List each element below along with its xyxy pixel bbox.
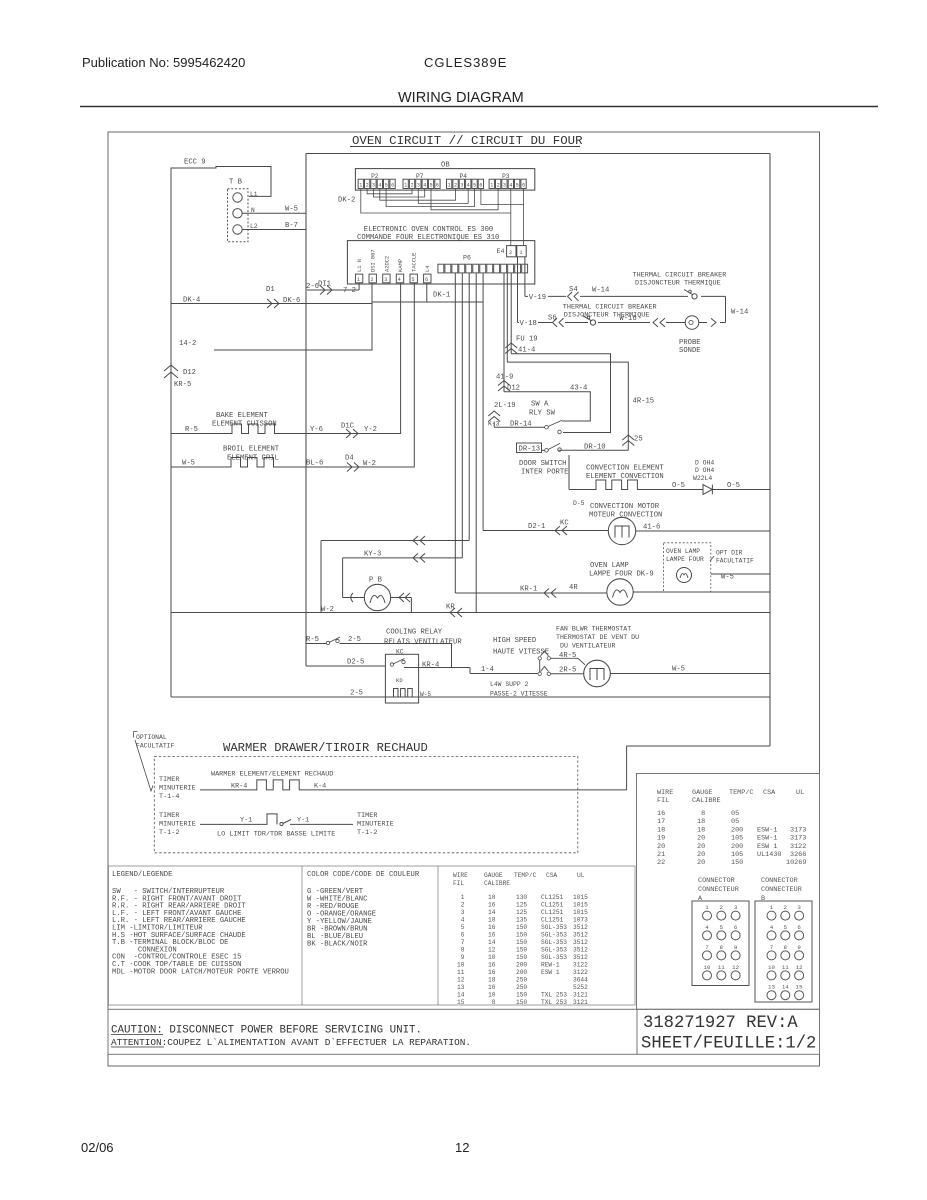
svg-text:135: 135 bbox=[516, 917, 527, 924]
svg-text:11: 11 bbox=[718, 964, 725, 971]
svg-text:TIMER: TIMER bbox=[159, 776, 179, 784]
svg-text:V-18: V-18 bbox=[520, 320, 537, 328]
svg-text:WIRE: WIRE bbox=[657, 789, 673, 797]
svg-text:OVEN LAMP: OVEN LAMP bbox=[666, 548, 700, 555]
svg-text:D2-1: D2-1 bbox=[528, 523, 545, 531]
svg-text:2: 2 bbox=[457, 902, 465, 909]
connector B pins bbox=[767, 911, 776, 920]
svg-text:BK -BLACK/NOIR: BK -BLACK/NOIR bbox=[307, 941, 368, 949]
svg-text:2-6: 2-6 bbox=[306, 283, 319, 291]
EOC pin1 stub bbox=[358, 283, 360, 290]
svg-text:130: 130 bbox=[516, 894, 527, 901]
svg-text:4R-15: 4R-15 bbox=[633, 398, 655, 406]
optional lamp E2 bbox=[677, 568, 692, 583]
svg-text:OPT DIR: OPT DIR bbox=[716, 550, 743, 557]
svg-text:L2: L2 bbox=[250, 223, 258, 230]
svg-text:3512: 3512 bbox=[573, 947, 588, 954]
svg-text:W-5: W-5 bbox=[672, 666, 685, 674]
svg-text:SW A: SW A bbox=[531, 401, 549, 409]
wire T1 bbox=[321, 541, 469, 613]
svg-text:D2-5: D2-5 bbox=[347, 659, 364, 667]
svg-text:LEGEND/LEGENDE: LEGEND/LEGENDE bbox=[112, 871, 172, 879]
svg-text:150: 150 bbox=[516, 939, 527, 946]
svg-text:14: 14 bbox=[488, 939, 496, 946]
svg-text:3: 3 bbox=[503, 183, 506, 189]
svg-text:15: 15 bbox=[796, 984, 803, 991]
svg-text:L1 N: L1 N bbox=[357, 259, 363, 272]
svg-text:10: 10 bbox=[457, 962, 465, 969]
svg-text:R-5: R-5 bbox=[306, 636, 319, 644]
svg-text:12: 12 bbox=[488, 947, 496, 954]
svg-text:10: 10 bbox=[488, 954, 496, 961]
svg-text:TXL 253: TXL 253 bbox=[541, 992, 567, 999]
svg-text:4R-5: 4R-5 bbox=[559, 652, 576, 660]
svg-text:1: 1 bbox=[448, 183, 451, 189]
svg-text:12: 12 bbox=[455, 1140, 469, 1155]
svg-text:WIRING DIAGRAM: WIRING DIAGRAM bbox=[398, 90, 524, 106]
svg-text:GAUGE: GAUGE bbox=[692, 789, 712, 797]
svg-text:5: 5 bbox=[457, 924, 465, 931]
svg-text:2: 2 bbox=[371, 277, 374, 283]
EOC lower pin boxes bbox=[355, 274, 362, 283]
oven circuit box right edge bbox=[769, 154, 771, 747]
svg-text:D1C: D1C bbox=[341, 423, 355, 431]
svg-text:3: 3 bbox=[417, 183, 420, 189]
svg-text:SGL-353: SGL-353 bbox=[541, 954, 567, 961]
wire N to oven box bbox=[242, 212, 306, 214]
diode D1 bbox=[703, 485, 770, 495]
svg-text:5: 5 bbox=[473, 183, 476, 189]
svg-text:4: 4 bbox=[398, 277, 401, 283]
svg-text:KR-4: KR-4 bbox=[231, 783, 247, 791]
terminal N bbox=[233, 209, 242, 218]
svg-text:D12: D12 bbox=[507, 385, 520, 393]
svg-text:16: 16 bbox=[488, 984, 496, 991]
svg-text:125: 125 bbox=[516, 902, 527, 909]
svg-text:25: 25 bbox=[634, 436, 643, 444]
svg-text:150: 150 bbox=[516, 999, 527, 1006]
svg-text:BAKE ELEMENT: BAKE ELEMENT bbox=[216, 412, 268, 420]
ECC hook wire bbox=[171, 167, 271, 305]
svg-text:14: 14 bbox=[488, 909, 496, 916]
svg-text:02/06: 02/06 bbox=[81, 1140, 114, 1155]
svg-text:3512: 3512 bbox=[573, 954, 588, 961]
svg-text:CONNECTOR: CONNECTOR bbox=[761, 877, 798, 885]
svg-text:1015: 1015 bbox=[573, 909, 588, 916]
svg-text:2-5: 2-5 bbox=[350, 690, 363, 698]
svg-text:DK-1: DK-1 bbox=[433, 292, 450, 300]
svg-text:Y-6: Y-6 bbox=[310, 426, 323, 434]
svg-text:TEMP/C: TEMP/C bbox=[729, 789, 753, 797]
svg-text:4: 4 bbox=[467, 183, 470, 189]
terminal L1 bbox=[233, 193, 242, 202]
bake element bbox=[171, 283, 401, 434]
svg-text:COLOR CODE/CODE DE COULEUR: COLOR CODE/CODE DE COULEUR bbox=[307, 871, 420, 879]
svg-text:18: 18 bbox=[488, 977, 496, 984]
svg-text:8: 8 bbox=[488, 999, 496, 1006]
svg-text:T B: T B bbox=[229, 179, 243, 187]
broil element bbox=[171, 283, 414, 467]
svg-text:9: 9 bbox=[734, 944, 738, 951]
svg-text:18: 18 bbox=[488, 917, 496, 924]
svg-text:3266: 3266 bbox=[790, 851, 806, 859]
svg-text:UL: UL bbox=[577, 872, 585, 879]
svg-text:W-5: W-5 bbox=[721, 574, 734, 582]
svg-text:125: 125 bbox=[516, 909, 527, 916]
svg-text:10: 10 bbox=[488, 992, 496, 999]
svg-text:CALIBRE: CALIBRE bbox=[692, 797, 721, 805]
svg-text:W-2: W-2 bbox=[363, 460, 376, 468]
svg-text:3512: 3512 bbox=[573, 924, 588, 931]
svg-text:12: 12 bbox=[732, 964, 739, 971]
svg-text:6: 6 bbox=[734, 924, 738, 931]
svg-text:P B: P B bbox=[369, 577, 383, 585]
probe sensor bbox=[685, 316, 699, 330]
oven lamp E1 bbox=[607, 579, 633, 605]
svg-text:2: 2 bbox=[497, 183, 500, 189]
svg-text:1: 1 bbox=[705, 904, 709, 911]
connector OB body bbox=[355, 169, 534, 191]
svg-text:K-4: K-4 bbox=[314, 783, 326, 791]
svg-text:D4: D4 bbox=[345, 455, 354, 463]
optional oven lamp box bbox=[664, 543, 711, 592]
svg-text:150: 150 bbox=[731, 859, 743, 867]
svg-text:R-5: R-5 bbox=[185, 426, 198, 434]
wire KR bus bbox=[171, 612, 770, 614]
svg-text:1: 1 bbox=[519, 250, 522, 256]
svg-text:6: 6 bbox=[425, 277, 428, 283]
wire D2-5 bbox=[306, 665, 385, 667]
svg-text:DU VENTILATEUR: DU VENTILATEUR bbox=[560, 643, 615, 650]
wire L2 to oven box bbox=[242, 229, 306, 231]
svg-text:3: 3 bbox=[384, 277, 387, 283]
svg-text:4R: 4R bbox=[569, 584, 578, 592]
svg-text:1: 1 bbox=[490, 183, 493, 189]
svg-text:41-9: 41-9 bbox=[496, 374, 513, 382]
svg-text:1-4: 1-4 bbox=[481, 666, 494, 674]
svg-text:43-4: 43-4 bbox=[570, 385, 587, 393]
svg-text:8: 8 bbox=[720, 944, 724, 951]
svg-text:20: 20 bbox=[657, 843, 665, 851]
svg-text:CONNECTEUR: CONNECTEUR bbox=[698, 886, 739, 894]
bus chevrons D12 bbox=[164, 365, 178, 378]
svg-text:MDL -MOTOR DOOR LATCH/MOTEUR P: MDL -MOTOR DOOR LATCH/MOTEUR PORTE VERRO… bbox=[112, 968, 289, 976]
svg-text:S6: S6 bbox=[548, 315, 557, 323]
svg-text:150: 150 bbox=[516, 932, 527, 939]
svg-text:8: 8 bbox=[697, 810, 705, 818]
svg-text:T-1-4: T-1-4 bbox=[159, 793, 179, 801]
svg-text:20: 20 bbox=[697, 843, 705, 851]
connector B box bbox=[755, 901, 812, 1002]
svg-text:RELAIS VENTILATEUR: RELAIS VENTILATEUR bbox=[384, 639, 462, 647]
svg-text:INTER PORTE: INTER PORTE bbox=[521, 469, 568, 477]
svg-text:15: 15 bbox=[457, 999, 465, 1006]
svg-text:22: 22 bbox=[657, 859, 665, 867]
svg-text:ATTENTION:COUPEZ L`ALIMENTATIO: ATTENTION:COUPEZ L`ALIMENTATION AVANT D`… bbox=[111, 1037, 471, 1048]
svg-text:MINUTERIE: MINUTERIE bbox=[357, 821, 394, 829]
svg-text:V-19: V-19 bbox=[529, 294, 546, 302]
svg-text:OVEN CIRCUIT // CIRCUIT DU FOU: OVEN CIRCUIT // CIRCUIT DU FOUR bbox=[352, 134, 583, 148]
svg-text:TIMER: TIMER bbox=[357, 812, 377, 820]
svg-text:KC: KC bbox=[560, 520, 569, 528]
svg-text:14: 14 bbox=[782, 984, 789, 991]
svg-text:05: 05 bbox=[731, 810, 739, 818]
svg-text:2-5: 2-5 bbox=[348, 636, 361, 644]
svg-text:MINUTERIE: MINUTERIE bbox=[159, 821, 196, 829]
svg-text:4: 4 bbox=[378, 183, 381, 189]
oven circuit box left edge bbox=[305, 154, 307, 667]
svg-text:3122: 3122 bbox=[573, 969, 588, 976]
svg-text:3121: 3121 bbox=[573, 999, 588, 1006]
right panel box bbox=[637, 774, 820, 1010]
EOC body U1 bbox=[347, 241, 534, 284]
svg-text:ESW 1: ESW 1 bbox=[541, 969, 560, 976]
svg-text:ESW-1: ESW-1 bbox=[757, 826, 777, 834]
svg-text:CONNECTOR: CONNECTOR bbox=[698, 877, 735, 885]
svg-text:BL-6: BL-6 bbox=[306, 460, 323, 468]
svg-text:13: 13 bbox=[768, 984, 775, 991]
svg-text:CSA: CSA bbox=[546, 872, 557, 879]
wire DK-4 bbox=[171, 303, 372, 305]
svg-text:6: 6 bbox=[479, 183, 482, 189]
svg-text:12: 12 bbox=[457, 977, 465, 984]
svg-text:5: 5 bbox=[516, 183, 519, 189]
legend box bbox=[109, 866, 636, 1005]
svg-text:OVEN LAMP: OVEN LAMP bbox=[590, 562, 629, 570]
svg-text:1015: 1015 bbox=[573, 894, 588, 901]
relay coil bbox=[394, 689, 413, 698]
svg-text:FACULTATIF: FACULTATIF bbox=[136, 743, 175, 750]
svg-text:WARMER DRAWER/TIROIR RECHAUD: WARMER DRAWER/TIROIR RECHAUD bbox=[223, 741, 428, 755]
svg-text:18: 18 bbox=[697, 818, 705, 826]
svg-text:18: 18 bbox=[697, 826, 705, 834]
svg-text:1: 1 bbox=[359, 183, 362, 189]
svg-text:18: 18 bbox=[657, 826, 665, 834]
svg-text:A: A bbox=[698, 895, 703, 903]
svg-text:CGLES389E: CGLES389E bbox=[424, 55, 507, 70]
svg-text:CONVECTION ELEMENT: CONVECTION ELEMENT bbox=[586, 465, 664, 473]
svg-text:LAMPE FOUR: LAMPE FOUR bbox=[666, 556, 704, 563]
svg-text:WARMER ELEMENT/ELEMENT RECHAUD: WARMER ELEMENT/ELEMENT RECHAUD bbox=[211, 771, 333, 779]
svg-text:FIL: FIL bbox=[453, 880, 464, 887]
warmer element wire bbox=[200, 780, 627, 790]
svg-text:SGL-353: SGL-353 bbox=[541, 932, 567, 939]
svg-text:200: 200 bbox=[731, 826, 743, 834]
svg-text:2: 2 bbox=[411, 183, 414, 189]
svg-text:18: 18 bbox=[488, 894, 496, 901]
svg-text:TXL 253: TXL 253 bbox=[541, 999, 567, 1006]
svg-text:CONVECTION MOTOR: CONVECTION MOTOR bbox=[590, 503, 660, 511]
svg-text:W-5: W-5 bbox=[182, 460, 195, 468]
svg-text:21: 21 bbox=[657, 851, 665, 859]
svg-text:FU 19: FU 19 bbox=[516, 336, 538, 344]
svg-text:THERMOSTAT DE VENT DU: THERMOSTAT DE VENT DU bbox=[556, 634, 639, 641]
svg-text:105: 105 bbox=[731, 835, 743, 843]
svg-text:4: 4 bbox=[457, 917, 465, 924]
svg-text:41-6: 41-6 bbox=[643, 524, 660, 532]
svg-text:ELECTRONIC OVEN CONTROL ES 300: ELECTRONIC OVEN CONTROL ES 300 bbox=[364, 226, 493, 234]
svg-text:DR-13: DR-13 bbox=[519, 446, 541, 454]
svg-text:4: 4 bbox=[705, 924, 709, 931]
svg-text:3121: 3121 bbox=[573, 992, 588, 999]
svg-text:D OH4: D OH4 bbox=[695, 460, 714, 467]
svg-text:FIL: FIL bbox=[657, 797, 669, 805]
svg-text:REW-1: REW-1 bbox=[541, 962, 560, 969]
svg-text:KAMP: KAMP bbox=[398, 259, 404, 272]
svg-text:FAN BLWR THERMOSTAT: FAN BLWR THERMOSTAT bbox=[556, 626, 631, 633]
svg-text:CALIBRE: CALIBRE bbox=[484, 880, 510, 887]
svg-text:16: 16 bbox=[488, 902, 496, 909]
svg-text:200: 200 bbox=[731, 843, 743, 851]
wire V-19 bbox=[525, 257, 726, 323]
svg-text:T-1-2: T-1-2 bbox=[159, 829, 179, 837]
oven circuit box bottom edge bbox=[627, 745, 770, 747]
svg-text:5: 5 bbox=[412, 277, 415, 283]
svg-text:12: 12 bbox=[796, 964, 803, 971]
svg-text:1015: 1015 bbox=[573, 902, 588, 909]
svg-text:W-14: W-14 bbox=[731, 309, 748, 317]
svg-text:2: 2 bbox=[784, 904, 788, 911]
svg-text:CL1251: CL1251 bbox=[541, 909, 564, 916]
svg-text:3122: 3122 bbox=[573, 962, 588, 969]
svg-text:7: 7 bbox=[457, 939, 465, 946]
svg-text:2L-19: 2L-19 bbox=[494, 402, 516, 410]
svg-text:D12: D12 bbox=[183, 369, 196, 377]
svg-text:UL: UL bbox=[796, 789, 804, 797]
svg-text:CL1251: CL1251 bbox=[541, 902, 564, 909]
svg-text:ECC 9: ECC 9 bbox=[184, 159, 206, 167]
svg-text:SHEET/FEUILLE:1/2: SHEET/FEUILLE:1/2 bbox=[641, 1035, 816, 1054]
svg-text:Publication No: 5995462420: Publication No: 5995462420 bbox=[82, 55, 245, 70]
svg-text:14-2: 14-2 bbox=[179, 340, 196, 348]
svg-text:KD: KD bbox=[396, 677, 403, 684]
svg-text:CL1251: CL1251 bbox=[541, 894, 564, 901]
svg-text:SGL-353: SGL-353 bbox=[541, 924, 567, 931]
svg-text:LO LIMIT TDR/TDR BASSE LIMITE: LO LIMIT TDR/TDR BASSE LIMITE bbox=[217, 831, 335, 839]
lo limit tdr wire bbox=[200, 814, 277, 825]
svg-text:3: 3 bbox=[457, 909, 465, 916]
svg-text:DISJONCTEUR THERMIQUE: DISJONCTEUR THERMIQUE bbox=[635, 280, 721, 288]
svg-text:L4: L4 bbox=[425, 266, 431, 272]
svg-text:20: 20 bbox=[697, 835, 705, 843]
svg-text:6: 6 bbox=[457, 932, 465, 939]
svg-text:6: 6 bbox=[436, 183, 439, 189]
svg-text:KR-4: KR-4 bbox=[422, 662, 439, 670]
svg-text:1: 1 bbox=[770, 904, 774, 911]
svg-text:O-5: O-5 bbox=[727, 482, 740, 490]
svg-text:WIRE: WIRE bbox=[453, 872, 468, 879]
svg-text:3173: 3173 bbox=[790, 835, 806, 843]
OB interconnect wires bbox=[361, 189, 524, 246]
svg-text:BROIL ELEMENT: BROIL ELEMENT bbox=[223, 446, 280, 454]
svg-text:3: 3 bbox=[734, 904, 738, 911]
junction arrows DK-6 bbox=[267, 299, 279, 308]
svg-text:3512: 3512 bbox=[573, 932, 588, 939]
svg-text:5: 5 bbox=[430, 183, 433, 189]
svg-text:A2DC2: A2DC2 bbox=[384, 256, 390, 272]
svg-text:CONNECTEUR: CONNECTEUR bbox=[761, 886, 802, 894]
svg-text:5: 5 bbox=[385, 183, 388, 189]
wire V-18 bbox=[518, 257, 726, 323]
svg-text:THERMAL CIRCUIT BREAKER: THERMAL CIRCUIT BREAKER bbox=[633, 272, 727, 280]
svg-text:T-1-2: T-1-2 bbox=[357, 829, 377, 837]
svg-text:318271927 REV:A: 318271927 REV:A bbox=[643, 1014, 798, 1033]
svg-text:2: 2 bbox=[454, 183, 457, 189]
fan motor M2 bbox=[584, 660, 611, 687]
svg-text:TEMP/C: TEMP/C bbox=[514, 872, 537, 879]
svg-text:B-7: B-7 bbox=[285, 222, 298, 230]
svg-text:W22L4: W22L4 bbox=[693, 475, 712, 482]
svg-text:10269: 10269 bbox=[786, 859, 806, 867]
svg-text:LAMPE FOUR DK-9: LAMPE FOUR DK-9 bbox=[589, 571, 654, 579]
svg-text:16: 16 bbox=[488, 932, 496, 939]
svg-text:200: 200 bbox=[516, 962, 527, 969]
svg-text:11: 11 bbox=[782, 964, 789, 971]
svg-text:7: 7 bbox=[770, 944, 774, 951]
wire D2-1 bbox=[483, 530, 608, 532]
svg-text:1073: 1073 bbox=[573, 917, 588, 924]
svg-text:16: 16 bbox=[657, 810, 665, 818]
svg-text:150: 150 bbox=[516, 992, 527, 999]
svg-text:14: 14 bbox=[457, 992, 465, 999]
svg-text:TIMER: TIMER bbox=[159, 812, 179, 820]
svg-text:COOLING RELAY: COOLING RELAY bbox=[386, 629, 443, 637]
optional bracket arrow bbox=[134, 732, 154, 792]
svg-text:DK-6: DK-6 bbox=[283, 297, 300, 305]
svg-text:16: 16 bbox=[488, 924, 496, 931]
svg-text:KR-5: KR-5 bbox=[174, 381, 191, 389]
svg-text:THERMAL CIRCUIT BREAKER: THERMAL CIRCUIT BREAKER bbox=[563, 303, 657, 311]
svg-text:UL1430: UL1430 bbox=[757, 851, 781, 859]
convection element R bbox=[569, 480, 703, 490]
svg-text:3: 3 bbox=[460, 183, 463, 189]
svg-text:7: 7 bbox=[705, 944, 709, 951]
svg-text:3122: 3122 bbox=[790, 843, 806, 851]
svg-text:O-5: O-5 bbox=[672, 482, 685, 490]
svg-text:E4: E4 bbox=[497, 248, 505, 255]
svg-text:150: 150 bbox=[516, 947, 527, 954]
svg-text:6: 6 bbox=[391, 183, 394, 189]
svg-text:3512: 3512 bbox=[573, 939, 588, 946]
svg-text:D-5: D-5 bbox=[573, 500, 585, 507]
svg-text:1: 1 bbox=[404, 183, 407, 189]
svg-text:ESW 1: ESW 1 bbox=[757, 843, 777, 851]
svg-text:3: 3 bbox=[797, 904, 801, 911]
caution box bbox=[108, 1009, 637, 1054]
svg-text:19: 19 bbox=[657, 835, 665, 843]
svg-text:MINUTERIE: MINUTERIE bbox=[159, 785, 196, 793]
svg-text:OPTIONAL: OPTIONAL bbox=[136, 734, 167, 741]
connector A box bbox=[692, 901, 749, 986]
svg-text:SONDE: SONDE bbox=[679, 347, 701, 355]
warmer riser to oven box bbox=[626, 746, 628, 790]
svg-text:W-5: W-5 bbox=[285, 206, 298, 214]
svg-text:Y-2: Y-2 bbox=[364, 426, 377, 434]
wire KR-1 bbox=[455, 592, 606, 594]
svg-text:5: 5 bbox=[784, 924, 788, 931]
svg-text:L1: L1 bbox=[250, 191, 258, 198]
svg-text:250: 250 bbox=[516, 984, 527, 991]
oven circuit box top edge bbox=[306, 153, 770, 155]
svg-text:4: 4 bbox=[509, 183, 512, 189]
svg-text:HIGH SPEED: HIGH SPEED bbox=[493, 637, 536, 645]
bottom bus bbox=[171, 696, 770, 698]
header rule bbox=[80, 106, 878, 108]
svg-text:4: 4 bbox=[423, 183, 426, 189]
svg-text:10: 10 bbox=[704, 964, 711, 971]
P6 drop wires bbox=[455, 273, 628, 612]
svg-text:41-4: 41-4 bbox=[518, 347, 535, 355]
